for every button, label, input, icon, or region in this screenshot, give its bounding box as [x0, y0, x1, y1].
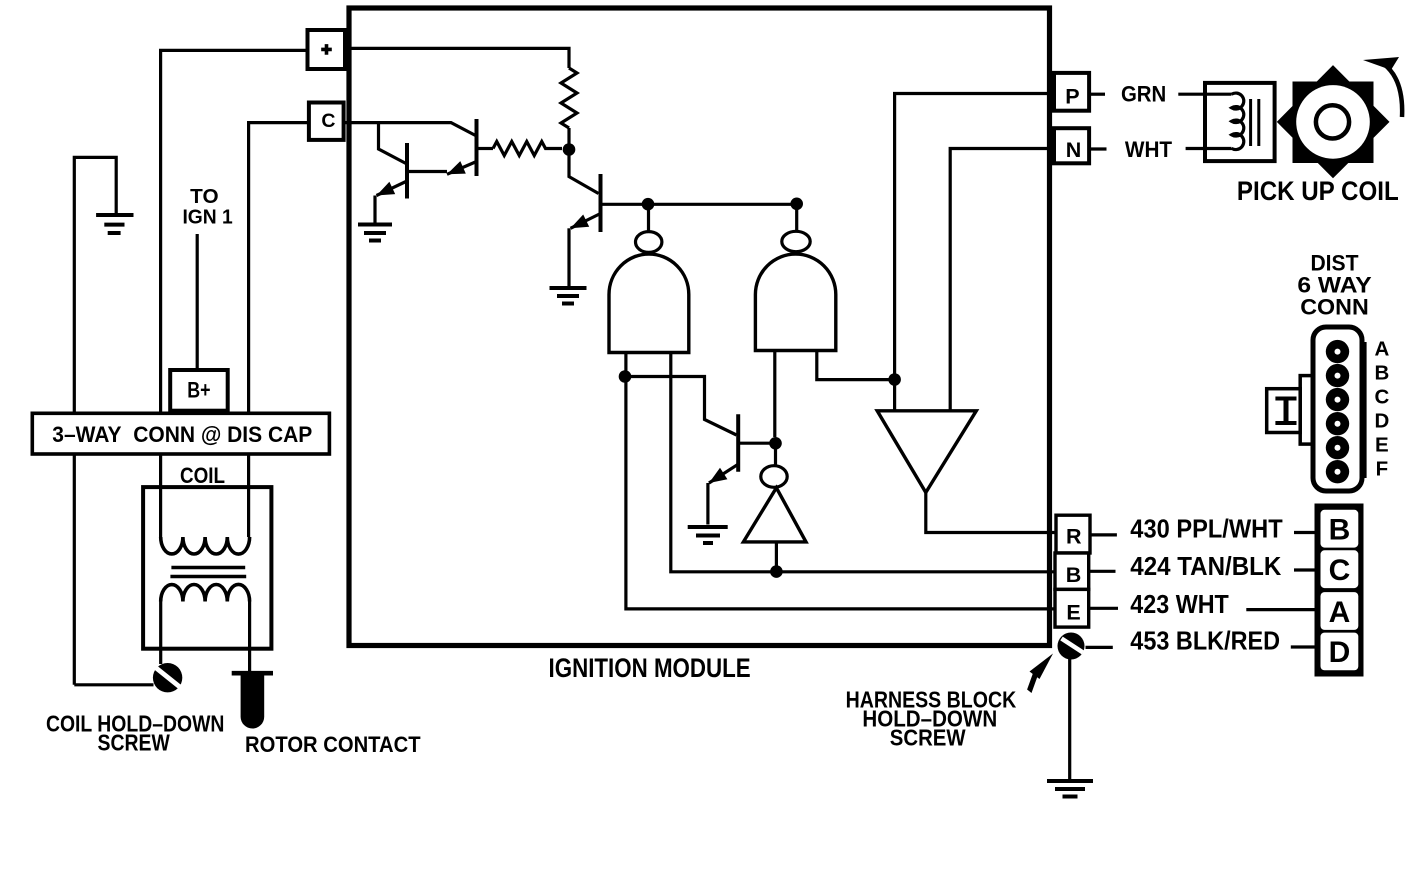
svg-text:A: A [1329, 596, 1351, 629]
svg-text:D: D [1374, 410, 1389, 433]
svg-text:B: B [1329, 514, 1351, 547]
svg-text:TO: TO [190, 185, 218, 208]
svg-text:IGNITION MODULE: IGNITION MODULE [549, 653, 751, 683]
svg-text:IGN 1: IGN 1 [182, 206, 232, 229]
svg-text:SCREW: SCREW [98, 730, 171, 756]
svg-text:424 TAN/BLK: 424 TAN/BLK [1130, 551, 1281, 581]
svg-text:423 WHT: 423 WHT [1130, 589, 1229, 619]
svg-text:ROTOR CONTACT: ROTOR CONTACT [245, 732, 421, 757]
svg-text:SCREW: SCREW [890, 724, 966, 750]
svg-text:F: F [1376, 458, 1389, 481]
svg-text:PICK UP COIL: PICK UP COIL [1237, 176, 1399, 206]
svg-text:COIL: COIL [180, 463, 225, 488]
svg-text:E: E [1066, 601, 1080, 625]
svg-text:453 BLK/RED: 453 BLK/RED [1130, 626, 1280, 656]
svg-text:3–WAY CONN @ DIS CAP: 3–WAY CONN @ DIS CAP [52, 422, 312, 447]
svg-text:R: R [1066, 525, 1082, 549]
svg-text:A: A [1374, 338, 1389, 361]
svg-text:C: C [321, 110, 335, 132]
svg-text:430 PPL/WHT: 430 PPL/WHT [1130, 513, 1283, 543]
svg-text:CONN: CONN [1300, 294, 1369, 319]
svg-text:C: C [1374, 386, 1389, 409]
svg-text:D: D [1329, 636, 1351, 669]
svg-text:E: E [1375, 434, 1389, 457]
svg-text:B: B [1066, 563, 1082, 587]
svg-text:WHT: WHT [1125, 137, 1173, 162]
svg-text:N: N [1066, 138, 1082, 162]
svg-text:GRN: GRN [1121, 82, 1166, 107]
svg-text:P: P [1065, 85, 1079, 109]
svg-text:B+: B+ [187, 378, 210, 403]
svg-text:C: C [1329, 554, 1351, 587]
svg-text:B: B [1374, 362, 1389, 385]
